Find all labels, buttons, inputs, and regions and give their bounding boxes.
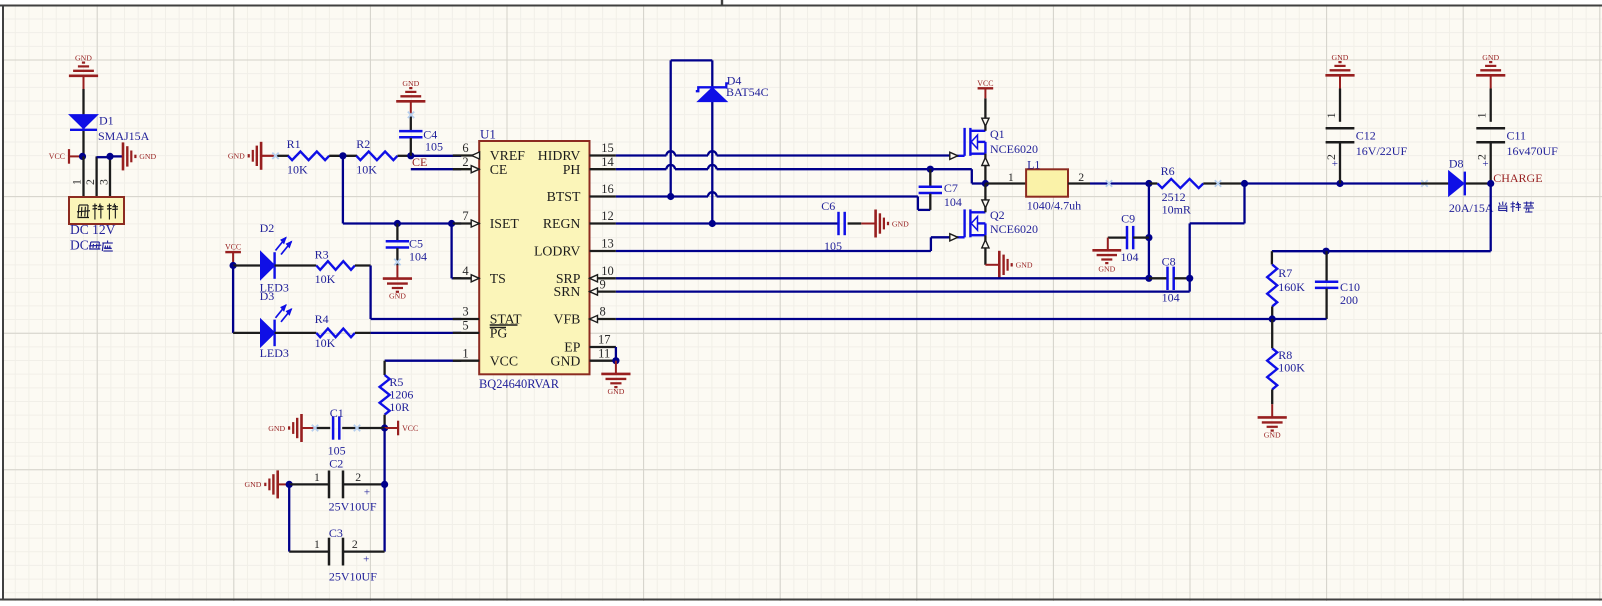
svg-text:105: 105: [425, 140, 443, 154]
svg-text:C7: C7: [944, 181, 958, 195]
svg-text:GND: GND: [139, 152, 156, 161]
svg-text:CHARGE: CHARGE: [1493, 171, 1542, 185]
svg-text:25V10UF: 25V10UF: [329, 569, 377, 583]
svg-text:LODRV: LODRV: [534, 244, 580, 259]
svg-text:R3: R3: [315, 247, 329, 261]
svg-text:13: 13: [601, 237, 614, 251]
svg-text:Q1: Q1: [990, 127, 1005, 141]
svg-text:VCC: VCC: [225, 243, 241, 252]
svg-text:D1: D1: [99, 114, 114, 128]
svg-text:104: 104: [1121, 250, 1139, 264]
svg-text:NCE6020: NCE6020: [990, 222, 1038, 236]
svg-text:2: 2: [352, 537, 358, 551]
svg-text:GND: GND: [75, 54, 92, 63]
svg-text:C12: C12: [1356, 128, 1376, 142]
svg-text:2: 2: [1078, 170, 1084, 184]
svg-text:11: 11: [598, 346, 610, 360]
svg-text:10R: 10R: [389, 400, 409, 414]
svg-text:+: +: [1332, 158, 1338, 170]
svg-text:1: 1: [70, 179, 84, 185]
svg-text:104: 104: [409, 250, 427, 264]
svg-text:GND: GND: [1098, 265, 1115, 274]
svg-text:1: 1: [1475, 112, 1489, 118]
svg-text:25V10UF: 25V10UF: [329, 500, 377, 514]
svg-text:1: 1: [1008, 170, 1014, 184]
svg-text:R2: R2: [356, 137, 370, 151]
svg-text:CE: CE: [412, 155, 427, 169]
svg-text:D2: D2: [260, 221, 275, 235]
svg-text:10K: 10K: [315, 272, 336, 286]
svg-text:104: 104: [1162, 291, 1180, 305]
svg-text:BTST: BTST: [547, 189, 581, 204]
svg-text:100K: 100K: [1278, 360, 1305, 374]
svg-text:2: 2: [355, 470, 361, 484]
svg-text:C11: C11: [1507, 128, 1527, 142]
svg-text:GND: GND: [244, 480, 261, 489]
svg-text:R6: R6: [1161, 164, 1175, 178]
svg-text:VCC: VCC: [402, 424, 418, 433]
svg-text:4: 4: [462, 264, 469, 278]
svg-text:+: +: [364, 486, 370, 498]
svg-text:GND: GND: [607, 387, 624, 396]
svg-text:16v470UF: 16v470UF: [1507, 144, 1559, 158]
svg-text:3: 3: [462, 305, 468, 319]
svg-text:1040/4.7uh: 1040/4.7uh: [1027, 198, 1081, 212]
svg-text:C3: C3: [329, 526, 343, 540]
svg-text:GND: GND: [268, 424, 285, 433]
svg-text:SMAJ15A: SMAJ15A: [98, 129, 150, 143]
svg-text:9: 9: [599, 277, 605, 291]
svg-text:U1: U1: [480, 126, 496, 141]
svg-text:14: 14: [601, 155, 614, 169]
svg-text:Q2: Q2: [990, 208, 1005, 222]
svg-text:CE: CE: [490, 162, 508, 177]
svg-text:VCC: VCC: [977, 79, 993, 88]
svg-text:8: 8: [599, 305, 605, 319]
svg-text:VCC: VCC: [49, 152, 65, 161]
svg-text:1: 1: [462, 346, 468, 360]
svg-text:C2: C2: [329, 457, 343, 471]
svg-text:16: 16: [601, 182, 614, 196]
svg-text:D8: D8: [1449, 157, 1464, 171]
svg-text:7: 7: [462, 209, 468, 223]
svg-text:105: 105: [328, 444, 346, 458]
svg-text:TS: TS: [490, 271, 506, 286]
svg-text:GND: GND: [550, 353, 580, 368]
svg-text:10mR: 10mR: [1162, 203, 1191, 217]
svg-text:GND: GND: [892, 219, 909, 228]
svg-text:104: 104: [944, 195, 962, 209]
svg-text:15: 15: [601, 141, 614, 155]
svg-text:+: +: [1482, 158, 1488, 170]
svg-text:D3: D3: [260, 289, 275, 303]
svg-text:160K: 160K: [1278, 280, 1305, 294]
svg-text:16V/22UF: 16V/22UF: [1356, 144, 1408, 158]
svg-text:C8: C8: [1162, 255, 1176, 269]
svg-text:LED3: LED3: [260, 346, 289, 360]
svg-text:10: 10: [601, 264, 614, 278]
svg-text:DC 12V: DC 12V: [70, 222, 116, 237]
svg-text:GND: GND: [402, 79, 419, 88]
svg-text:VFB: VFB: [554, 312, 581, 327]
svg-text:GND: GND: [389, 292, 406, 301]
svg-text:C5: C5: [409, 237, 423, 251]
svg-text:C1: C1: [330, 406, 344, 420]
svg-text:6: 6: [462, 141, 468, 155]
svg-text:3: 3: [97, 179, 111, 185]
svg-text:1: 1: [1324, 112, 1338, 118]
svg-text:BQ24640RVAR: BQ24640RVAR: [479, 377, 560, 391]
svg-text:200: 200: [1340, 293, 1358, 307]
svg-text:10K: 10K: [315, 336, 336, 350]
svg-text:20A/15A: 20A/15A: [1449, 201, 1494, 215]
svg-text:DC: DC: [70, 238, 89, 253]
svg-text:2: 2: [462, 155, 468, 169]
svg-text:+: +: [363, 554, 369, 566]
svg-text:R7: R7: [1278, 266, 1292, 280]
svg-text:5: 5: [462, 319, 468, 333]
svg-text:10K: 10K: [287, 162, 308, 176]
svg-text:ISET: ISET: [490, 216, 520, 231]
svg-text:PH: PH: [563, 162, 581, 177]
svg-text:GND: GND: [1016, 261, 1033, 270]
svg-text:NCE6020: NCE6020: [990, 142, 1038, 156]
svg-text:1: 1: [314, 470, 320, 484]
svg-text:VCC: VCC: [490, 353, 518, 368]
svg-text:2: 2: [83, 179, 97, 185]
svg-text:L1: L1: [1027, 157, 1040, 171]
svg-text:GND: GND: [1264, 430, 1281, 439]
svg-text:SRN: SRN: [554, 284, 581, 299]
svg-text:GND: GND: [228, 152, 245, 161]
svg-text:17: 17: [598, 333, 611, 347]
svg-text:C6: C6: [821, 199, 835, 213]
svg-text:1: 1: [314, 537, 320, 551]
svg-text:REGN: REGN: [543, 216, 581, 231]
svg-text:12: 12: [601, 209, 614, 223]
svg-text:C9: C9: [1121, 211, 1135, 225]
svg-text:R4: R4: [315, 312, 329, 326]
svg-text:R1: R1: [287, 137, 301, 151]
svg-text:BAT54C: BAT54C: [726, 85, 769, 99]
svg-text:10K: 10K: [356, 162, 377, 176]
svg-text:GND: GND: [1482, 53, 1499, 62]
svg-text:GND: GND: [1332, 53, 1349, 62]
svg-text:C10: C10: [1340, 280, 1360, 294]
